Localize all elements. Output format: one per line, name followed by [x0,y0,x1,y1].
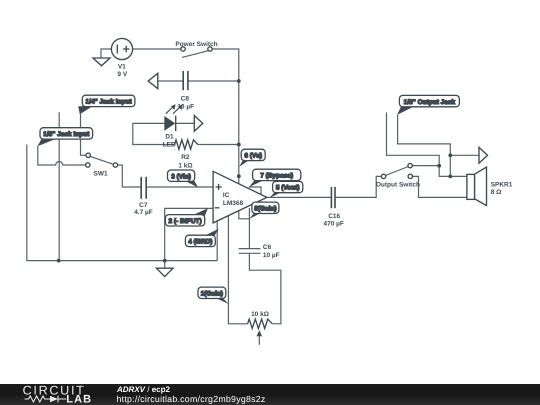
svg-text:3 (Vin): 3 (Vin) [171,173,191,180]
svg-text:Output Switch: Output Switch [376,181,420,188]
svg-text:Power Switch: Power Switch [175,41,217,48]
svg-text:C8: C8 [181,95,190,102]
svg-text:10 µF: 10 µF [177,103,194,110]
svg-text:6 (Vs): 6 (Vs) [244,153,262,160]
svg-text:1/8" Jack Input: 1/8" Jack Input [43,131,90,138]
svg-text:V1: V1 [118,64,126,71]
svg-text:1/4" Jack Input: 1/4" Jack Input [86,99,133,106]
svg-text:LAB: LAB [66,394,92,405]
svg-text:SW1: SW1 [94,171,108,178]
svg-text:10 µF: 10 µF [263,252,280,259]
svg-text:IC: IC [223,192,230,199]
svg-text:C7: C7 [139,202,148,209]
svg-text:10 kΩ: 10 kΩ [251,311,269,318]
svg-text:9 V: 9 V [117,71,127,78]
svg-text:D1: D1 [165,133,174,140]
svg-text:http://circuitlab.com/crg2mb9y: http://circuitlab.com/crg2mb9yg8s2z [117,394,266,404]
svg-text:5 (Vout): 5 (Vout) [276,185,300,192]
svg-text:7 (Bypass): 7 (Bypass) [260,173,293,180]
svg-text:ADRXV / ecp2: ADRXV / ecp2 [116,385,170,394]
svg-text:4.7 µF: 4.7 µF [134,209,153,216]
svg-text:C6: C6 [263,244,272,251]
svg-text:2 (- INPUT): 2 (- INPUT) [168,218,201,225]
svg-text:C16: C16 [328,213,340,220]
svg-text:LED: LED [163,142,176,149]
svg-text:SPKR1: SPKR1 [491,181,513,188]
svg-text:8(Gain): 8(Gain) [254,206,276,213]
svg-text:470 µF: 470 µF [324,220,344,227]
svg-text:1 kΩ: 1 kΩ [178,162,192,169]
svg-text:R2: R2 [181,154,190,161]
svg-text:8 Ω: 8 Ω [491,189,502,196]
svg-text:1(Gain): 1(Gain) [201,291,223,298]
svg-text:1/8" Output Jack: 1/8" Output Jack [404,99,456,106]
svg-text:LM368: LM368 [223,200,244,207]
svg-text:4 (GRD): 4 (GRD) [188,239,212,246]
